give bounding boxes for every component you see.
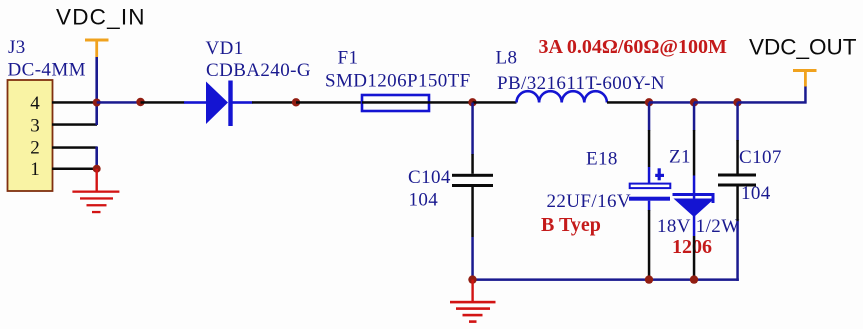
svg-text:3A 0.04Ω/60Ω@100M: 3A 0.04Ω/60Ω@100M	[539, 36, 728, 58]
wire bottom rail (navy)	[471, 278, 739, 281]
svg-text:18V 1/2W: 18V 1/2W	[657, 216, 740, 237]
wire inductor to node (black)	[607, 101, 649, 104]
svg-text:CDBA240-G: CDBA240-G	[206, 60, 311, 81]
zener diode Z1	[673, 193, 715, 217]
svg-text:L8: L8	[496, 48, 518, 69]
label E18 plus sign	[658, 168, 661, 180]
ground GND2	[450, 280, 496, 323]
pin 4	[30, 93, 97, 114]
svg-text:4: 4	[30, 93, 40, 114]
ground GND1	[72, 169, 119, 214]
connector J3	[8, 80, 53, 191]
wire main rail segment 1 (navy)	[97, 101, 141, 104]
svg-text:B Tyep: B Tyep	[541, 214, 601, 236]
svg-text:VD1: VD1	[206, 38, 244, 59]
svg-text:104: 104	[409, 190, 439, 211]
wire E18 branch upper (black)	[648, 103, 651, 131]
power symbol VDC_IN	[85, 39, 109, 58]
fuse F1	[362, 95, 429, 111]
svg-text:2: 2	[30, 138, 40, 159]
svg-text:3: 3	[30, 115, 40, 136]
wire C104 branch lower	[471, 187, 474, 237]
wire C107 branch upper (black)	[736, 103, 739, 141]
node pin1 ground junction	[93, 165, 101, 173]
svg-text:22UF/16V: 22UF/16V	[547, 191, 632, 212]
wire E18 branch lower	[648, 201, 651, 211]
node bottom junction Z1	[690, 275, 698, 283]
svg-text:Z1: Z1	[669, 147, 691, 168]
power symbol VDC_OUT	[793, 69, 817, 87]
capacitor E18 (electrolytic)	[629, 184, 670, 201]
svg-text:C104: C104	[408, 167, 451, 188]
node VDC_IN junction	[93, 99, 101, 107]
wire Z1 branch lower (black)	[693, 196, 696, 236]
svg-text:1: 1	[30, 159, 40, 180]
pin 2	[30, 138, 97, 159]
wire node to inductor (black)	[473, 101, 517, 104]
wire diode to node (black)	[252, 101, 297, 104]
diode VD1	[184, 81, 253, 127]
svg-text:VDC_IN: VDC_IN	[56, 5, 146, 30]
wire pin4 to pin3 vertical	[95, 102, 98, 125]
node bottom junction GND	[468, 275, 476, 283]
wire C107 node to VDC_OUT corner (navy)	[738, 101, 807, 104]
wire VDC_IN stem	[95, 57, 98, 103]
wire C107 branch lower	[736, 187, 739, 222]
wire E18 to Z1 (black)	[649, 101, 694, 104]
wire C104 branch upper (black)	[471, 103, 474, 155]
node bottom junction E18	[645, 275, 653, 283]
wire pin2 to pin1 vertical	[95, 147, 98, 170]
capacitor C107	[718, 174, 756, 187]
wire VDC_OUT riser (navy)	[804, 86, 807, 104]
wire node to fuse (black)	[296, 101, 362, 104]
pin 1	[30, 159, 97, 180]
inductor L8	[517, 91, 607, 102]
svg-text:DC-4MM: DC-4MM	[8, 60, 86, 81]
svg-text:E18: E18	[586, 149, 618, 170]
node rail junction C107	[733, 98, 741, 106]
svg-text:PB/321611T-600Y-N: PB/321611T-600Y-N	[497, 73, 665, 94]
pin 3	[30, 115, 97, 136]
wire rail to diode (black)	[141, 101, 185, 104]
wire fuse to node (black)	[429, 101, 473, 104]
node rail junction C104	[468, 98, 476, 106]
svg-text:C107: C107	[739, 147, 782, 168]
wire Z1 to C107 (black)	[694, 101, 738, 104]
node rail junction B	[292, 98, 300, 106]
capacitor C104	[452, 174, 493, 187]
svg-text:VDC_OUT: VDC_OUT	[749, 35, 857, 60]
node rail junction A	[136, 98, 144, 106]
wire Z1 branch upper (black)	[693, 103, 696, 131]
svg-text:J3: J3	[8, 37, 26, 58]
svg-text:SMD1206P150TF: SMD1206P150TF	[325, 71, 471, 92]
node rail junction E18	[645, 98, 653, 106]
svg-text:F1: F1	[338, 48, 359, 69]
node rail junction Z1	[690, 98, 698, 106]
svg-text:1206: 1206	[672, 236, 712, 258]
